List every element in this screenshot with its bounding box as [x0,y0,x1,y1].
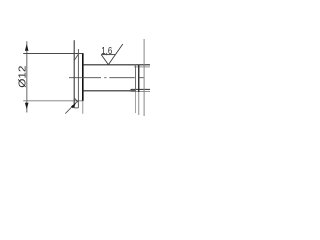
roughness symbol left leg [101,55,108,65]
extension line bottom / collar bottom edge [23,100,83,102]
leader line chamfer callout [65,100,78,113]
collar extension line below [82,101,84,114]
flange bottom edge [74,107,78,109]
dimension line Ø12 [26,41,28,112]
groove right extension below [138,92,140,115]
leader arrowhead [71,103,76,109]
chamfer edge top [75,54,79,60]
tall extension line right [143,39,145,116]
roughness symbol bar [101,54,115,56]
centerline [69,77,144,79]
shaft bottom edge [83,90,136,92]
extension line top / collar top edge [23,53,83,55]
groove left extension below [135,92,137,113]
shaft top edge [83,64,150,66]
flange right edge [77,49,79,108]
shaft second top line [134,66,150,68]
arrowhead top [25,44,29,51]
groove left edge [135,65,137,92]
roughness symbol tail leg [108,44,122,65]
arrowhead bottom [25,103,29,110]
flange left edge [73,40,75,108]
right section lower faint line [131,91,151,93]
right section bottom edge [131,88,151,90]
groove right edge [138,65,140,92]
chamfer edge bottom [75,98,79,102]
collar right face [82,54,84,101]
